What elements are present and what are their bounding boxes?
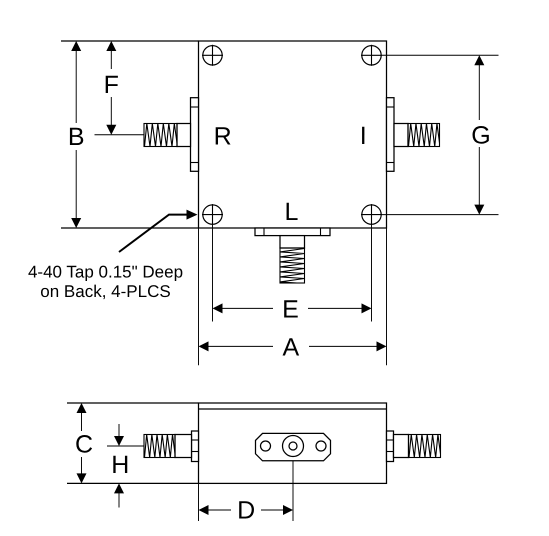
svg-text:F: F <box>104 71 119 99</box>
svg-text:E: E <box>282 295 299 323</box>
svg-text:B: B <box>68 123 85 151</box>
svg-text:H: H <box>111 451 129 479</box>
svg-text:C: C <box>75 430 93 458</box>
svg-text:R: R <box>214 122 232 150</box>
svg-text:D: D <box>237 496 255 524</box>
svg-text:4-40 Tap 0.15" Deep: 4-40 Tap 0.15" Deep <box>28 262 183 281</box>
svg-text:on Back, 4-PLCS: on Back, 4-PLCS <box>40 282 170 301</box>
svg-text:I: I <box>360 122 367 150</box>
svg-text:A: A <box>282 333 299 361</box>
svg-text:L: L <box>285 198 299 226</box>
svg-text:G: G <box>471 121 490 149</box>
